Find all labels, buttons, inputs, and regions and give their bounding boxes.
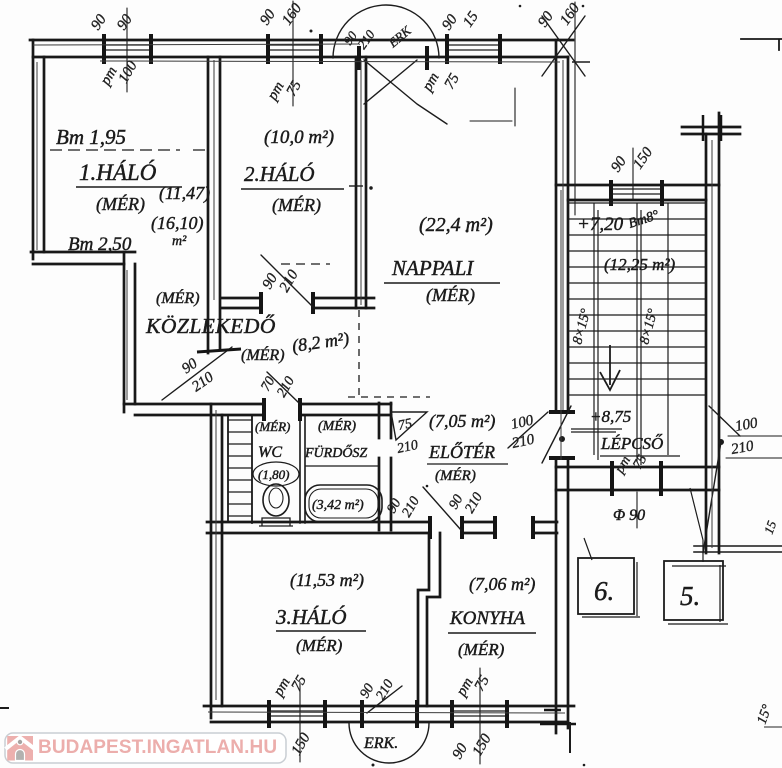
svg-text:210: 210 — [730, 438, 755, 458]
flag triangle 75/210 bath door — [391, 412, 427, 440]
svg-text:(8,2 m²): (8,2 m²) — [291, 328, 351, 357]
shaft hatch rungs — [228, 420, 252, 516]
window ticks bottom wall — [269, 700, 507, 728]
dashed boundary kozlekedo/nappali — [358, 310, 360, 398]
svg-text:210: 210 — [396, 438, 420, 457]
wall bath/wc bottom + eloter bottom — [207, 522, 557, 533]
svg-text:75: 75 — [472, 673, 494, 694]
svg-text:100: 100 — [734, 415, 759, 435]
wall left exterior inner — [43, 57, 46, 252]
underline nappali — [384, 282, 500, 284]
short line nappali right top — [572, 61, 590, 63]
svg-text:210: 210 — [399, 494, 422, 520]
tick kozlekedo wall end — [197, 349, 241, 352]
underline 1.halo — [76, 186, 182, 188]
sketch double lines top wall — [33, 44, 712, 713]
svg-text:15°: 15° — [755, 702, 776, 726]
svg-text:pm: pm — [419, 70, 443, 95]
wall 2.halo bottom with door gap — [221, 298, 374, 308]
svg-text:(MÉR): (MÉR) — [96, 193, 145, 215]
svg-text:(1,80): (1,80) — [258, 467, 289, 482]
svg-text:75: 75 — [397, 416, 414, 434]
window ticks top wall — [104, 34, 500, 64]
dim line vertical W1 — [126, 8, 128, 92]
balcony door ticks — [359, 46, 427, 70]
wall tail below bottom right corner — [569, 722, 571, 753]
svg-text:(22,4 m²): (22,4 m²) — [419, 214, 493, 236]
dim line phi90 — [636, 492, 638, 528]
dashed continuation step wall — [281, 263, 330, 265]
tick bottom far left — [0, 707, 9, 709]
svg-text:FÜRDŐSZ: FÜRDŐSZ — [304, 444, 367, 461]
diagonal X at nappali right wall top — [542, 16, 585, 76]
underline 2.halo — [241, 188, 344, 190]
svg-text:(MÉR): (MÉR) — [458, 640, 505, 659]
svg-text:(MÉR): (MÉR) — [318, 417, 356, 434]
wall bottom exterior — [204, 706, 574, 722]
window W2 top lines — [268, 45, 321, 50]
door swing erk bottom — [367, 686, 402, 713]
toilet inner — [269, 488, 283, 508]
svg-text:90: 90 — [88, 11, 110, 33]
speck dots — [310, 30, 313, 33]
erk semicircle bottom — [349, 723, 429, 763]
window W3 top lines — [447, 45, 500, 50]
wall lines right of landing — [694, 546, 782, 552]
svg-text:(MÉR): (MÉR) — [426, 284, 475, 306]
svg-text:(3,42 m²): (3,42 m²) — [312, 498, 364, 513]
dashed boundary eloter/nappali — [348, 396, 430, 398]
ellipse around 1,80 — [253, 462, 299, 486]
svg-text:(16,10): (16,10) — [151, 213, 204, 234]
short marks nappali top — [470, 88, 515, 126]
toilet base — [259, 518, 293, 526]
svg-text:NAPPALI: NAPPALI — [391, 256, 474, 280]
window W1 top lines — [104, 45, 151, 50]
dim line vertical W2 — [292, 1, 294, 106]
svg-text:ERK.: ERK. — [363, 735, 398, 752]
dim line stairwell window — [632, 148, 634, 200]
svg-text:210: 210 — [277, 267, 302, 295]
ticks wc door — [264, 398, 300, 421]
wall detached top right — [741, 39, 782, 50]
svg-text:90: 90 — [179, 355, 201, 377]
svg-text:Bm 1,95: Bm 1,95 — [56, 125, 126, 149]
wall divider 1.halo/2.halo — [208, 57, 220, 353]
svg-text:90: 90 — [257, 6, 279, 28]
underline eloter — [427, 463, 508, 465]
svg-text:BUDAPEST.INGATLAN.HU: BUDAPEST.INGATLAN.HU — [38, 737, 277, 758]
svg-text:KÖZLEKEDŐ: KÖZLEKEDŐ — [145, 314, 276, 338]
svg-text:(MÉR): (MÉR) — [435, 467, 476, 484]
svg-text:150: 150 — [470, 731, 495, 759]
svg-text:Bm 2,50: Bm 2,50 — [68, 234, 132, 255]
landing short lines — [571, 429, 622, 432]
window stairwell top lines — [611, 189, 662, 194]
svg-text:(MÉR): (MÉR) — [156, 288, 200, 307]
ticks konyha door — [495, 516, 533, 539]
svg-text:90: 90 — [535, 8, 557, 30]
ticks stub right wall — [703, 115, 721, 141]
door swing flat5 right — [703, 406, 740, 553]
ticks bottom right wall end — [540, 710, 576, 724]
svg-text:(11,47): (11,47) — [159, 183, 210, 204]
dim line vertical W4 bottom — [299, 682, 301, 762]
svg-text:(MÉR): (MÉR) — [241, 345, 285, 364]
svg-text:(7,05 m²): (7,05 m²) — [429, 411, 495, 432]
svg-text:(MÉR): (MÉR) — [272, 194, 321, 216]
window W4 bottom lines — [269, 711, 325, 716]
svg-text:ERK: ERK — [385, 22, 415, 51]
svg-text:+7,20: +7,20 — [577, 214, 624, 235]
svg-text:m²: m² — [172, 234, 187, 249]
svg-text:15: 15 — [761, 518, 780, 536]
bathtub inner — [309, 489, 378, 518]
stair arrow — [600, 345, 620, 390]
svg-text:(MÉR): (MÉR) — [255, 419, 290, 434]
hinge dot entry door — [559, 436, 565, 442]
underline 3.halo — [276, 630, 366, 632]
svg-text:LÉPCSŐ: LÉPCSŐ — [600, 434, 663, 453]
wall stairwell top — [556, 185, 719, 200]
dim line vertical W5 bottom — [479, 668, 481, 764]
svg-text:90: 90 — [114, 11, 136, 33]
wall wc shaft verticals — [228, 415, 252, 523]
wall bath right with door gap — [379, 403, 391, 530]
diagonal X under balcony door — [364, 60, 447, 124]
svg-text:210: 210 — [373, 677, 396, 703]
svg-text:8×15°: 8×15° — [570, 307, 594, 346]
toilet bowl — [263, 484, 289, 516]
wall left exterior outer — [32, 40, 35, 259]
watermark bar budapest.ingatlan.hu — [5, 733, 286, 763]
watermark house icon — [7, 736, 33, 761]
svg-text:15: 15 — [460, 8, 482, 30]
window ticks stairwell walls — [611, 180, 662, 496]
dim line vertical 90/160 — [574, 2, 576, 215]
underline lepcso — [600, 455, 680, 457]
svg-text:160: 160 — [279, 0, 305, 28]
svg-text:(10,0 m²): (10,0 m²) — [264, 127, 334, 148]
svg-text:75: 75 — [289, 673, 311, 694]
ticks entry door — [549, 412, 575, 458]
svg-text:150: 150 — [289, 730, 314, 758]
svg-text:(7,06 m²): (7,06 m²) — [469, 574, 535, 595]
svg-text:210: 210 — [511, 431, 537, 451]
svg-text:100: 100 — [116, 58, 141, 86]
svg-text:100: 100 — [510, 412, 536, 432]
wall divider 3.halo/konyha with jog — [418, 533, 440, 706]
door swing 2.halo — [261, 255, 313, 307]
svg-text:+8,75: +8,75 — [590, 407, 631, 426]
svg-text:90: 90 — [357, 681, 377, 701]
box flat 6 — [578, 558, 634, 614]
svg-text:Bm8°: Bm8° — [627, 208, 662, 232]
svg-text:90: 90 — [450, 741, 472, 762]
svg-text:75: 75 — [442, 71, 464, 92]
dim slash entry 100/210 — [508, 412, 548, 448]
svg-text:KONYHA: KONYHA — [449, 608, 525, 629]
wall stub top right — [682, 127, 740, 134]
dot after underline — [369, 186, 372, 189]
wall wc/bath divider — [300, 415, 305, 523]
hinge dot flat5 door — [718, 439, 724, 445]
bathtub outer — [305, 485, 382, 522]
door swing wc — [267, 372, 299, 403]
wall 2.halo right — [356, 57, 366, 308]
svg-text:90: 90 — [608, 153, 630, 175]
ticks 2.halo door — [261, 292, 313, 314]
wall step vertical — [124, 252, 135, 412]
underline furdosz — [305, 465, 378, 467]
svg-text:(11,53 m²): (11,53 m²) — [290, 570, 364, 591]
ticks 3.halo door — [430, 516, 462, 539]
svg-text:6.: 6. — [594, 576, 614, 606]
door swing 3.halo — [423, 487, 461, 530]
window W5 bottom lines — [452, 711, 507, 716]
dashed line bm195 — [50, 149, 211, 151]
svg-text:ELŐTÉR: ELŐTÉR — [428, 441, 495, 462]
door swing entry — [542, 406, 571, 463]
svg-text:Φ 90: Φ 90 — [613, 507, 645, 524]
stair stringers — [594, 203, 668, 465]
wall corridor bottom / WC top — [124, 404, 391, 415]
svg-text:150: 150 — [630, 144, 656, 172]
svg-text:75: 75 — [284, 78, 306, 99]
balcony door swing arc — [333, 5, 439, 58]
svg-text:3.HÁLÓ: 3.HÁLÓ — [275, 605, 347, 629]
leader line box5 — [690, 488, 703, 562]
wall top exterior lower line — [33, 56, 568, 59]
svg-text:75: 75 — [630, 452, 650, 472]
svg-text:210: 210 — [462, 490, 485, 516]
wall step horizontal Bm2,50 — [31, 252, 135, 264]
leader line box6 — [584, 538, 592, 560]
wall right long (nappali/konyha east) — [556, 40, 568, 733]
svg-text:WC: WC — [258, 444, 282, 461]
underline right 100/210 — [726, 436, 782, 458]
stair treads — [568, 203, 706, 395]
wall top exterior upper line — [30, 39, 573, 42]
svg-text:5.: 5. — [680, 581, 700, 611]
dim diagonal kozlekedo — [162, 347, 232, 400]
svg-text:1.HÁLÓ: 1.HÁLÓ — [79, 159, 157, 185]
svg-text:90: 90 — [439, 11, 461, 33]
wall stairwell right — [706, 113, 719, 553]
svg-text:(MÉR): (MÉR) — [296, 636, 343, 655]
wall left lower section — [211, 404, 222, 718]
wall landing bottom — [556, 467, 719, 490]
svg-text:(12,25 m²): (12,25 m²) — [604, 255, 676, 274]
underline konyha — [448, 632, 536, 634]
svg-text:2.HÁLÓ: 2.HÁLÓ — [244, 162, 315, 186]
box flat 5 — [664, 561, 723, 620]
svg-text:210: 210 — [274, 374, 297, 400]
